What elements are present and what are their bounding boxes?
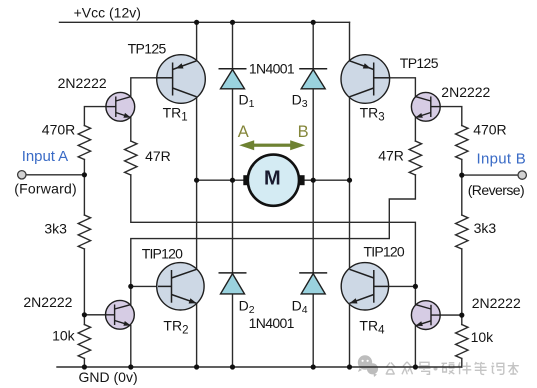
svg-text:470R: 470R: [42, 121, 75, 137]
wire Q3 emitter to 47R right: [414, 118, 416, 142]
junction Q2 base: [82, 312, 87, 317]
svg-text:TIP120: TIP120: [142, 246, 183, 262]
terminal Input A: [18, 171, 26, 179]
wire TR4 base node to TR4 base: [374, 285, 416, 287]
watermark text: [434, 367, 438, 371]
wire Q4 collector to TR4 base node: [414, 286, 416, 304]
node Input B: [459, 173, 464, 178]
wire 470R left top lead from Q1 base corner: [84, 107, 106, 126]
junction gnd-Q2 emitter: [128, 364, 133, 369]
wire Q1 emitter to 47R left: [130, 118, 132, 142]
wire D2 anode to ground: [232, 294, 234, 367]
junction rail-TR1: [194, 20, 199, 25]
wire D4 anode to ground: [312, 294, 314, 367]
wire TR1 collector to motor left node: [196, 97, 198, 181]
svg-text:2N2222: 2N2222: [23, 294, 72, 310]
wire D1 cathode to rail: [232, 22, 234, 69]
resistor 47R right: [409, 141, 421, 175]
svg-text:10k: 10k: [471, 329, 495, 345]
wire 470R left bottom lead: [83, 160, 85, 175]
svg-text:Input B: Input B: [477, 151, 526, 168]
junction TR4 base: [413, 284, 418, 289]
wire node B to 3k3 right: [461, 175, 463, 215]
transistor Q1 2N2222 top-left body: [106, 92, 135, 121]
svg-text:TP125: TP125: [128, 40, 167, 56]
resistor 10k left: [78, 325, 90, 359]
wire 10k right to ground: [461, 359, 463, 368]
node motor-left at TR1/TR2: [194, 178, 199, 183]
resistor 470R left: [78, 126, 90, 160]
svg-text:47R: 47R: [145, 148, 171, 164]
transistor TR2 TIP120 body: [157, 263, 204, 310]
wire node A to 3k3 left: [83, 175, 85, 215]
diode D3: [299, 69, 327, 89]
resistor 470R right: [456, 126, 468, 160]
svg-text:M: M: [264, 167, 281, 189]
junction gnd-D4: [311, 364, 316, 369]
transistor Q4 2N2222 bottom-right body: [411, 301, 461, 330]
wire Q2 emitter to ground: [130, 326, 132, 368]
junction gnd-TR4 emitter: [347, 364, 352, 369]
transistor Q2 2N2222 bottom-left body: [84, 300, 134, 329]
wire 47R left to TR4 base node (cross wire): [131, 175, 416, 286]
svg-text:Input A: Input A: [22, 148, 68, 165]
wire D3 cathode to rail: [312, 22, 314, 69]
diode D1: [219, 69, 247, 89]
watermark icon: [358, 355, 378, 377]
junction Q4 base: [459, 313, 464, 318]
diode D2: [219, 273, 247, 294]
watermark icon eyes: [362, 360, 369, 362]
node Input A: [82, 172, 87, 177]
diode D4: [299, 273, 327, 294]
wire motor right node to D4 cathode: [312, 180, 314, 273]
junction rail-D3: [311, 20, 316, 25]
wire motor left node to TR2 collector: [196, 180, 198, 269]
resistor 3k3 left: [78, 215, 90, 249]
wire TR2 base node to TR2 base: [131, 285, 172, 287]
wire rail to TR3 emitter: [349, 22, 351, 61]
wire motor right lead: [305, 179, 350, 181]
wire +Vcc top rail: [60, 21, 350, 23]
wire TR1 emitter to rail: [196, 22, 198, 61]
wire Q1 collector to TR1 base: [131, 78, 173, 97]
wire TR3 collector to motor right node: [349, 97, 351, 181]
junction gnd-TR2 emitter: [194, 364, 199, 369]
svg-text:GND (0v): GND (0v): [79, 369, 138, 385]
wire TR3 base to Q3 collector: [374, 78, 416, 97]
svg-text:(Reverse): (Reverse): [468, 182, 525, 198]
wire motor left lead: [197, 179, 244, 181]
wire Q4 emitter to ground: [414, 326, 416, 367]
arrow A-B direction: [239, 140, 305, 150]
resistor 47R left: [125, 141, 137, 175]
transistor TR1 TIP125 body: [157, 55, 206, 104]
junction rail-D1: [230, 20, 235, 25]
svg-text:10k: 10k: [52, 327, 76, 343]
junction gnd-Q4 emitter: [413, 364, 418, 369]
node motor-right at TR3/TR4: [347, 178, 352, 183]
junction TR2 base: [128, 284, 133, 289]
wire Q2 base node to 10k left: [83, 315, 85, 325]
junction gnd-10k-left: [82, 364, 87, 369]
wire Input B to node B junction: [462, 174, 519, 176]
svg-text:+Vcc (12v): +Vcc (12v): [74, 5, 141, 21]
wire 3k3 left to Q2 base node: [83, 249, 85, 315]
svg-text:TIP120: TIP120: [364, 244, 405, 260]
terminal Input B: [518, 171, 526, 179]
wire Input A to node A junction: [26, 174, 85, 176]
svg-text:47R: 47R: [378, 148, 404, 164]
svg-text:1N4001: 1N4001: [249, 315, 295, 331]
transistor Q3 2N2222 top-right body: [411, 92, 440, 121]
wire 470R right bottom lead: [461, 160, 463, 176]
svg-text:3k3: 3k3: [474, 220, 497, 236]
junction gnd-D2: [230, 364, 235, 369]
wire 10k left to ground: [83, 359, 85, 368]
svg-text:470R: 470R: [473, 122, 506, 138]
wire motor right node to TR4 collector: [349, 180, 351, 269]
svg-text:A: A: [238, 123, 249, 141]
svg-text:2N2222: 2N2222: [58, 75, 107, 91]
junction motor-left D1/D2: [230, 178, 235, 183]
resistor 3k3 right: [456, 215, 468, 249]
wire D1 anode to motor left node: [232, 89, 234, 180]
wire TR2 emitter to ground: [196, 303, 198, 367]
transistor TR4 TIP120 body: [341, 263, 388, 310]
svg-text:3k3: 3k3: [44, 220, 67, 236]
resistor 10k right: [456, 325, 468, 359]
svg-text:2N2222: 2N2222: [441, 84, 490, 100]
wire motor left node to D2 cathode: [232, 180, 234, 273]
svg-text:1N4001: 1N4001: [249, 61, 295, 77]
wire ground rail: [57, 366, 462, 368]
svg-text:2N2222: 2N2222: [472, 295, 521, 311]
wire D3 anode to motor right node: [312, 89, 314, 180]
wire Q4 base node to 10k right: [461, 315, 463, 324]
junction motor-right D3/D4: [311, 178, 316, 183]
svg-text:TP125: TP125: [400, 55, 439, 71]
wire 470R right top lead from Q3 base corner: [440, 107, 462, 126]
svg-text:B: B: [298, 123, 309, 141]
motor M: [243, 155, 304, 206]
svg-text:(Forward): (Forward): [14, 181, 76, 197]
transistor TR3 TIP125 body: [341, 55, 390, 104]
wire 3k3 right to Q4 base node: [461, 249, 463, 315]
wire 47R right to TR2 base node (cross wire): [131, 175, 416, 286]
wire Q2 collector to TR2 base node: [130, 286, 132, 304]
wire TR4 emitter to ground: [349, 303, 351, 367]
